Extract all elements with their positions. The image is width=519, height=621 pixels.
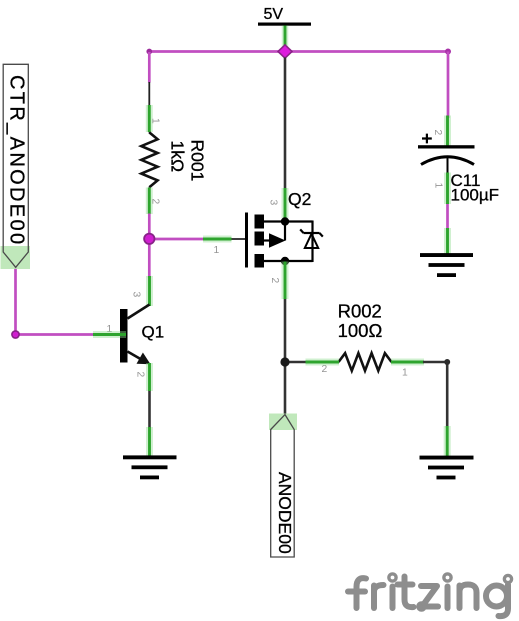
svg-text:3: 3 — [131, 292, 142, 298]
net label ANODE00 — [269, 414, 297, 558]
svg-text:5V: 5V — [264, 6, 284, 23]
pin highlight R002 pin 2 — [306, 359, 340, 366]
pin highlight R001 pin 1 — [146, 105, 153, 132]
resistor R001 zigzag — [141, 132, 157, 187]
pin highlight Q1 pin 2 (emitter) — [146, 363, 153, 391]
pin highlight Q1 pin 1 (base) — [93, 331, 126, 338]
resistor R001 pin2 lead — [148, 187, 150, 214]
wire label to base corner — [14, 267, 17, 335]
pin highlight Q2 pin 3 (drain) — [282, 188, 289, 218]
svg-text:1kΩ: 1kΩ — [168, 141, 188, 173]
node source junction — [280, 357, 289, 366]
ground symbol (right) — [420, 456, 474, 480]
pin highlight C11 pin 2 — [444, 116, 451, 148]
svg-text:R002: R002 — [338, 301, 382, 322]
svg-text:1: 1 — [150, 118, 161, 124]
wire junction to Q1 collector — [148, 239, 151, 278]
node 5V rail junction (diamond) — [278, 45, 292, 58]
mosfet Q2 — [214, 189, 313, 284]
node R002 right corner — [444, 359, 450, 365]
fritzing logo — [348, 574, 512, 616]
svg-text:2: 2 — [269, 278, 280, 284]
node base corner — [12, 331, 19, 338]
pin highlight C11 pin 1 — [444, 173, 451, 205]
svg-text:Q2: Q2 — [288, 189, 311, 209]
wire 5V rail (magenta) — [149, 50, 448, 53]
node rail left corner — [146, 49, 152, 55]
wire Q1 emitter to ground — [148, 390, 151, 428]
svg-text:ANODE00: ANODE00 — [275, 472, 295, 554]
wire 5V to Q2 drain (black) — [284, 58, 287, 191]
resistor R002 — [285, 301, 424, 379]
wire R002 to right ground — [423, 362, 447, 428]
mosfet Q2 gate lead — [204, 238, 247, 240]
pin highlight R002 pin 1 — [391, 359, 424, 366]
wire rail to R001 — [148, 52, 151, 83]
svg-text:3: 3 — [268, 200, 279, 206]
wire Q2 source to junction (black) — [284, 298, 287, 414]
node gate junction — [144, 234, 154, 244]
wire C11 to ground (magenta) — [446, 203, 449, 230]
svg-text:2: 2 — [150, 199, 161, 205]
pin highlight R001 pin 2 — [146, 188, 153, 215]
body diode of Q2 — [300, 221, 323, 263]
svg-text:2: 2 — [135, 372, 146, 378]
resistor R001 pin1 lead — [148, 82, 150, 133]
wire Q1 base (magenta) — [16, 333, 96, 336]
wire junction to Q2 gate — [149, 238, 204, 241]
pin highlight ground (Q1) — [146, 427, 153, 457]
transistor Q1 — [107, 292, 165, 378]
pin highlight ground (right) — [444, 426, 451, 458]
wire R001 to gate junction — [148, 214, 151, 240]
pin highlight Q2 pin 2 (source) — [282, 262, 289, 300]
svg-text:Q1: Q1 — [142, 323, 165, 342]
wire rail to C11 (magenta) — [447, 52, 450, 119]
svg-text:2: 2 — [322, 364, 328, 375]
svg-text:1: 1 — [402, 368, 408, 379]
pin highlight Q2 pin 1 (gate) — [203, 236, 232, 243]
svg-text:1: 1 — [433, 183, 444, 189]
pin highlight ground (C11) — [444, 228, 451, 255]
svg-text:R001: R001 — [188, 140, 208, 182]
pin highlight Q1 pin 3 (collector) — [146, 276, 153, 306]
node rail right corner — [445, 49, 451, 55]
net label CTR_ANODE00 — [1, 64, 31, 269]
svg-text:CTR_ANODE00: CTR_ANODE00 — [6, 75, 28, 246]
capacitor C11 — [418, 130, 499, 205]
svg-text:100Ω: 100Ω — [338, 320, 383, 341]
svg-text:2: 2 — [432, 130, 443, 136]
svg-text:100µF: 100µF — [451, 186, 500, 205]
power symbol 5V — [258, 6, 311, 52]
svg-text:1: 1 — [214, 245, 220, 256]
ground symbol (Q1) — [123, 455, 177, 479]
ground symbol (C11) — [420, 253, 473, 277]
